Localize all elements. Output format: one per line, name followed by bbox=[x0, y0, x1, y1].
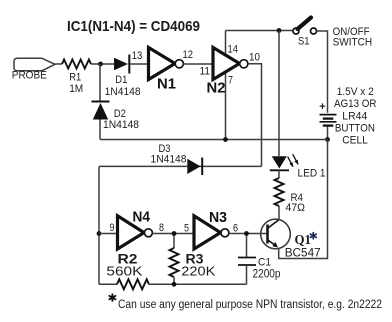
svg-text:N2: N2 bbox=[207, 81, 226, 97]
svg-text:1N4148: 1N4148 bbox=[105, 86, 141, 98]
wire D2 to negative rail bbox=[99, 120, 101, 140]
svg-text:1N4148: 1N4148 bbox=[151, 154, 187, 166]
resistor R3 bbox=[170, 236, 216, 285]
title IC1(N1-N4) = CD4069 bbox=[67, 18, 200, 35]
node R3 top junction bbox=[172, 231, 177, 236]
node R3 bottom junction bbox=[172, 282, 177, 287]
wire Q1 emitter return bbox=[279, 140, 328, 259]
footnote bbox=[109, 294, 382, 311]
svg-text:12: 12 bbox=[183, 49, 194, 61]
op-amp U1 inverter N3 bbox=[194, 210, 238, 249]
svg-text:47Ω: 47Ω bbox=[286, 202, 306, 214]
diode D1 bbox=[105, 55, 141, 99]
wire N4 to N3, pins 8 and 5 bbox=[152, 222, 194, 235]
wire R4 to Q1 collector bbox=[278, 206, 280, 220]
capacitor C1 bbox=[238, 236, 281, 285]
svg-text:LED 1: LED 1 bbox=[298, 168, 326, 180]
svg-text:14: 14 bbox=[228, 44, 239, 56]
wire switch to battery bbox=[317, 31, 328, 113]
svg-text:PROBE: PROBE bbox=[12, 70, 47, 82]
battery BT1 bbox=[319, 101, 336, 126]
wire input node down to D2 bbox=[99, 64, 101, 101]
svg-text:D1: D1 bbox=[115, 74, 127, 86]
svg-text:IC1(N1-N4) = CD4069: IC1(N1-N4) = CD4069 bbox=[67, 18, 200, 35]
svg-text:N1: N1 bbox=[157, 77, 176, 93]
resistor R4 bbox=[275, 178, 306, 214]
svg-text:7: 7 bbox=[228, 75, 233, 87]
wire N2 output down to D3 rail bbox=[248, 64, 262, 167]
diode D3 bbox=[151, 143, 203, 175]
node N4 input junction bbox=[97, 231, 102, 236]
probe P1 bbox=[12, 58, 55, 81]
node battery negative junction bbox=[325, 137, 330, 142]
wire R1 to D1 bbox=[91, 63, 114, 65]
op-amp U1 inverter N4 bbox=[118, 210, 153, 250]
label ON/OFF SWITCH bbox=[333, 26, 373, 49]
resistor R2 bbox=[106, 252, 149, 290]
svg-text:BC547: BC547 bbox=[285, 245, 321, 259]
wire top positive rail bbox=[226, 30, 293, 32]
svg-text:2200p: 2200p bbox=[253, 267, 281, 281]
wire battery to negative node bbox=[327, 127, 329, 140]
wire bottom rail left bbox=[99, 283, 117, 285]
switch S1 bbox=[293, 18, 317, 48]
node pin7 junction on negative rail bbox=[223, 137, 228, 142]
svg-text:BUTTON: BUTTON bbox=[335, 123, 375, 135]
svg-text:1M: 1M bbox=[69, 83, 83, 95]
svg-text:1.5V x 2: 1.5V x 2 bbox=[337, 86, 374, 98]
wire N1 to N2, pin 11 bbox=[183, 64, 213, 78]
svg-text:9: 9 bbox=[110, 222, 115, 234]
transistor Q1 bbox=[261, 219, 321, 259]
wire left feedback column bbox=[98, 166, 100, 284]
svg-text:SWITCH: SWITCH bbox=[333, 36, 373, 48]
wire pin 14 to top rail bbox=[225, 31, 227, 57]
svg-text:11: 11 bbox=[200, 66, 211, 78]
svg-text:LR44: LR44 bbox=[342, 110, 367, 122]
wire D1 to N1, pin 13 bbox=[130, 50, 149, 64]
wire to N4 input, pin 9 bbox=[99, 222, 118, 234]
svg-text:CELL: CELL bbox=[342, 135, 368, 147]
svg-text:Can use any general purpose NP: Can use any general purpose NPN transist… bbox=[118, 299, 382, 311]
svg-text:220K: 220K bbox=[181, 264, 215, 279]
svg-text:+: + bbox=[319, 101, 325, 113]
svg-text:10: 10 bbox=[249, 52, 260, 64]
wire LED to R4 bbox=[278, 170, 280, 178]
node junction probe/D1/D2 bbox=[98, 62, 103, 67]
wire probe to R1 bbox=[55, 63, 62, 65]
LED 1 bbox=[270, 154, 326, 179]
wire LED branch from top rail bbox=[278, 31, 280, 157]
label battery type bbox=[334, 86, 377, 147]
svg-text:N4: N4 bbox=[133, 210, 151, 226]
svg-text:R1: R1 bbox=[69, 72, 81, 84]
svg-text:5: 5 bbox=[184, 223, 189, 235]
wire D3 rail bbox=[99, 165, 262, 167]
svg-text:8: 8 bbox=[159, 222, 164, 234]
wire pin 7 to negative rail bbox=[225, 72, 227, 140]
resistor R1 bbox=[62, 60, 91, 96]
node junction top rail / LED branch bbox=[277, 28, 282, 33]
svg-text:N3: N3 bbox=[209, 210, 227, 226]
wire bottom rail middle bbox=[149, 283, 247, 285]
op-amp U1 inverter N2 bbox=[207, 44, 261, 97]
op-amp U1 inverter N1 bbox=[149, 48, 194, 93]
svg-text:S1: S1 bbox=[298, 36, 310, 48]
diode D2 bbox=[92, 102, 140, 132]
svg-text:1N4148: 1N4148 bbox=[103, 119, 139, 131]
svg-text:AG13 OR: AG13 OR bbox=[334, 98, 377, 110]
wire N3 output to Q1 base bbox=[229, 233, 267, 235]
svg-text:13: 13 bbox=[132, 50, 143, 62]
wire negative rail bbox=[100, 139, 328, 141]
svg-text:6: 6 bbox=[233, 223, 238, 235]
node C1 junction bbox=[244, 231, 249, 236]
svg-text:560K: 560K bbox=[106, 264, 142, 279]
